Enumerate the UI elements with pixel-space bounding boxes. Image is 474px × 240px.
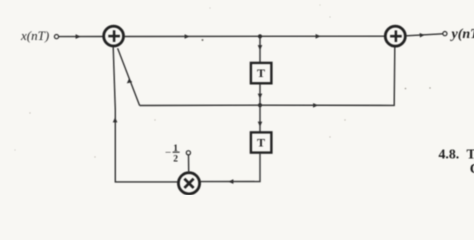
delay block T2 — [251, 132, 272, 152]
node N2 (junction on mid rail) — [258, 103, 262, 107]
arrowhead on diagonal into A1 — [127, 79, 133, 84]
svg-text:2: 2 — [173, 155, 178, 165]
wire diagonal up into adder A1 — [118, 48, 140, 105]
svg-text:−: − — [165, 147, 171, 159]
svg-text:C: C — [470, 161, 474, 176]
svg-text:x(nT): x(nT) — [20, 28, 49, 43]
adder A2 — [385, 26, 405, 46]
wire A2 to output terminal — [406, 34, 443, 36]
arrowhead top rail 1 — [185, 34, 190, 39]
wire mid rail right (N2 to riser) — [260, 46, 395, 105]
coefficient terminal — [186, 151, 190, 155]
arrowhead on input wire — [76, 34, 81, 39]
wire N2 down to delay T2 — [259, 105, 261, 131]
arrowhead on mid rail right — [313, 103, 318, 108]
adder A1 — [104, 26, 124, 46]
node N1 (junction on top rail) — [258, 34, 262, 38]
delay block T1 — [251, 63, 272, 83]
wire A1 to A2 (top rail) — [125, 35, 385, 37]
arrowhead into M1 — [228, 179, 233, 184]
scan speckles — [14, 4, 430, 157]
output terminal — [443, 31, 447, 35]
svg-text:T: T — [257, 136, 265, 150]
arrowhead on output wire — [420, 33, 425, 38]
svg-text:4.8.: 4.8. — [439, 147, 460, 162]
arrowhead into T1 — [258, 45, 263, 50]
label -1/2 coefficient — [165, 144, 180, 165]
wire T1 to node N2 — [259, 84, 261, 105]
svg-text:y(nT): y(nT) — [450, 27, 474, 42]
arrowhead into T2 — [258, 122, 263, 127]
wire N1 down to delay T1 — [259, 36, 261, 62]
svg-text:T: T — [257, 66, 265, 80]
wire M1 left and up into adder A1 (feedback) — [113, 47, 177, 182]
input terminal — [54, 35, 58, 39]
arrowhead up into A1 on feedback riser — [113, 117, 118, 122]
wire coefficient to M1 — [188, 155, 190, 172]
wire input to adder A1 — [59, 36, 103, 38]
multiplier M1 — [178, 173, 199, 194]
wire mid rail left (N2 to diagonal corner) — [140, 104, 260, 106]
wire T2 down and left to multiplier M1 — [201, 153, 261, 182]
arrowhead into N2 — [258, 94, 263, 99]
svg-text:T: T — [467, 147, 474, 162]
arrowhead top rail 2 — [316, 34, 321, 39]
